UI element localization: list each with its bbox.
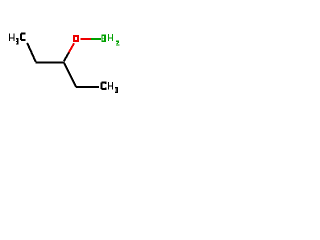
atom C1 methyl label C — [20, 32, 26, 41]
atom C1 methyl subscript 3 — [16, 38, 19, 44]
background — [0, 0, 130, 130]
atom C5 methyl subscript 3 — [115, 87, 118, 93]
atom O label — [73, 35, 79, 42]
bond C3-O oxygen half — [69, 43, 74, 52]
bond O-B oxygen half — [81, 38, 91, 40]
atom B hydrogen subscript 2 — [116, 41, 119, 46]
atom C5 methyl label C — [101, 81, 107, 90]
atom B label — [101, 35, 106, 42]
atom C1 methyl label H — [9, 34, 15, 41]
bond O-B boron half — [91, 38, 101, 40]
bond C2-C3 — [36, 62, 65, 64]
bond C4-C5 — [76, 86, 99, 88]
bond C1-C2 — [27, 43, 36, 62]
atom C5 methyl label H — [108, 82, 113, 89]
bond C3-O carbon half — [64, 52, 69, 61]
atom B hydrogen label H — [108, 34, 113, 41]
bond C3-C4 — [64, 63, 76, 88]
